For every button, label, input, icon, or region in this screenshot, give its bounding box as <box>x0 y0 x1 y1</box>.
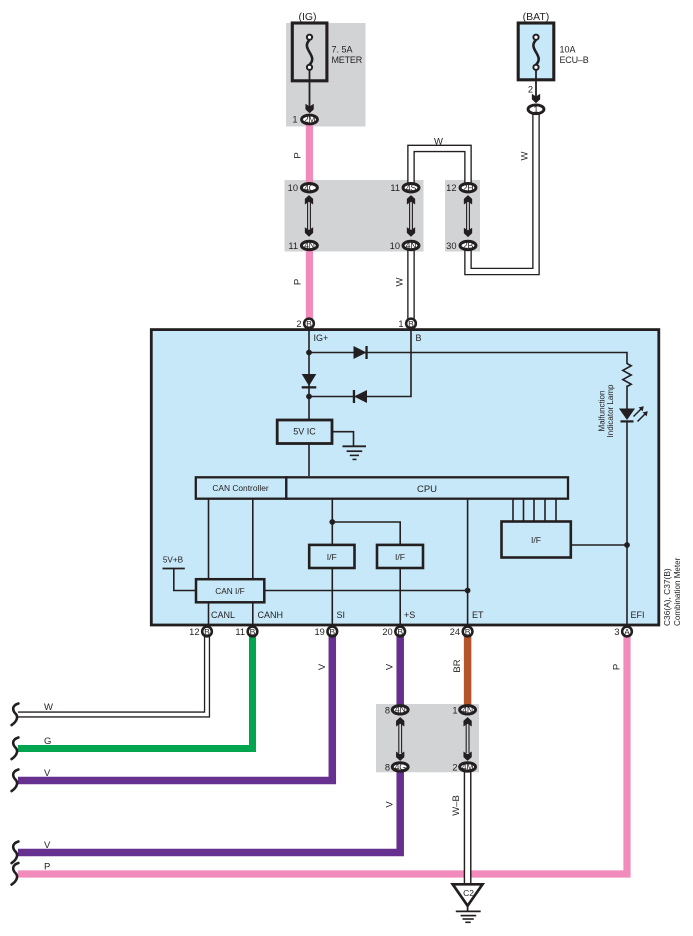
svg-text:4N: 4N <box>462 705 473 715</box>
svg-text:24: 24 <box>450 627 460 637</box>
svg-text:C36(A), C37(B): C36(A), C37(B) <box>662 568 672 626</box>
svg-text:4N: 4N <box>395 705 406 715</box>
svg-text:11: 11 <box>235 627 245 637</box>
svg-text:30: 30 <box>446 241 456 251</box>
svg-text:C2: C2 <box>463 888 474 898</box>
svg-text:SI: SI <box>337 610 346 620</box>
svg-text:A: A <box>624 627 630 637</box>
svg-text:BR: BR <box>452 659 463 672</box>
svg-text:4S: 4S <box>406 183 417 193</box>
svg-text:4N: 4N <box>304 241 315 251</box>
svg-text:I/F: I/F <box>327 552 337 562</box>
svg-text:V: V <box>385 663 396 670</box>
svg-text:11: 11 <box>390 183 400 193</box>
svg-text:10: 10 <box>288 183 298 193</box>
svg-text:B: B <box>329 627 335 637</box>
svg-text:P: P <box>293 152 304 158</box>
svg-text:EFI: EFI <box>631 610 645 620</box>
svg-text:CAN Controller: CAN Controller <box>212 483 269 493</box>
svg-text:V: V <box>44 768 51 779</box>
svg-text:P: P <box>44 862 50 873</box>
svg-text:V: V <box>385 801 396 808</box>
svg-text:4N: 4N <box>406 241 417 251</box>
svg-text:B: B <box>397 627 403 637</box>
svg-text:2: 2 <box>296 319 301 329</box>
svg-text:2B: 2B <box>463 241 474 251</box>
svg-text:CAN I/F: CAN I/F <box>215 586 245 596</box>
svg-text:3: 3 <box>614 627 619 637</box>
svg-text:4G: 4G <box>395 762 407 772</box>
svg-text:P: P <box>293 279 304 285</box>
svg-text:2H: 2H <box>463 183 474 193</box>
svg-text:Combination Meter: Combination Meter <box>673 557 682 626</box>
svg-text:19: 19 <box>314 627 324 637</box>
svg-text:12: 12 <box>446 183 456 193</box>
svg-text:5V IC: 5V IC <box>293 427 316 437</box>
svg-text:W–B: W–B <box>451 795 462 816</box>
svg-text:1: 1 <box>292 115 297 125</box>
svg-text:V: V <box>44 840 51 851</box>
svg-text:W: W <box>395 277 406 286</box>
svg-text:10: 10 <box>390 241 400 251</box>
svg-text:1: 1 <box>398 319 403 329</box>
svg-text:CANH: CANH <box>258 610 284 620</box>
svg-text:V: V <box>317 663 328 670</box>
svg-text:CPU: CPU <box>417 484 437 495</box>
svg-text:METER: METER <box>332 55 363 65</box>
svg-text:7. 5A: 7. 5A <box>332 45 353 55</box>
svg-text:1: 1 <box>452 705 457 715</box>
svg-text:(IG): (IG) <box>298 11 316 23</box>
svg-text:B: B <box>408 319 414 329</box>
svg-text:B: B <box>465 627 471 637</box>
svg-text:W: W <box>520 151 531 160</box>
svg-text:G: G <box>44 736 51 747</box>
svg-text:4C: 4C <box>304 183 316 193</box>
svg-text:+S: +S <box>404 610 415 620</box>
svg-text:11: 11 <box>288 241 298 251</box>
svg-text:B: B <box>306 319 312 329</box>
svg-text:IG+: IG+ <box>314 333 329 343</box>
svg-text:W: W <box>44 702 53 713</box>
svg-text:W: W <box>434 137 443 148</box>
svg-text:10A: 10A <box>560 45 576 55</box>
svg-text:2: 2 <box>528 85 533 95</box>
svg-text:1: 1 <box>534 105 539 115</box>
svg-text:Indicator Lamp: Indicator Lamp <box>606 384 615 437</box>
svg-text:20: 20 <box>382 627 392 637</box>
svg-text:12: 12 <box>189 627 199 637</box>
svg-text:4M: 4M <box>462 762 474 772</box>
svg-text:B: B <box>416 333 422 343</box>
svg-text:P: P <box>612 664 623 670</box>
svg-text:B: B <box>250 627 256 637</box>
svg-text:8: 8 <box>385 762 390 772</box>
svg-text:(BAT): (BAT) <box>523 11 550 23</box>
svg-text:B: B <box>204 627 210 637</box>
svg-text:8: 8 <box>385 705 390 715</box>
svg-text:ET: ET <box>472 610 484 620</box>
svg-text:2: 2 <box>452 762 457 772</box>
svg-text:ECU–B: ECU–B <box>560 55 589 65</box>
svg-text:I/F: I/F <box>395 552 405 562</box>
svg-text:2M: 2M <box>304 115 316 125</box>
svg-text:CANL: CANL <box>211 610 235 620</box>
svg-text:5V+B: 5V+B <box>163 556 184 565</box>
svg-text:I/F: I/F <box>531 535 541 545</box>
